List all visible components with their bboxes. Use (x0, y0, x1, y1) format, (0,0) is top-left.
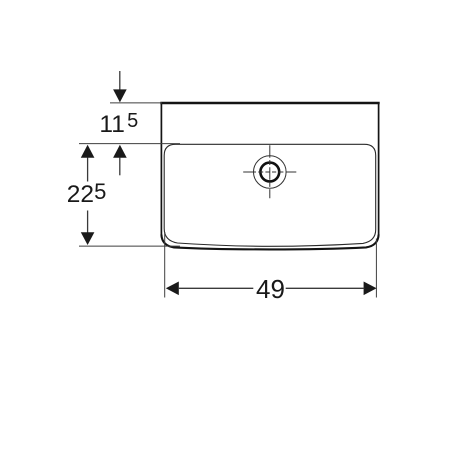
dim 49: right arrowhead (364, 282, 377, 296)
dim 22.5: value text 22 (67, 183, 94, 208)
dim 22.5: up arrowhead (81, 145, 95, 158)
inner basin outline (164, 144, 376, 246)
dim 49: value text 49 (256, 276, 285, 302)
dim 49: left extension line (164, 232, 166, 298)
dim 49: dimension line right segment (286, 287, 365, 289)
tap hole inner circle (260, 163, 279, 182)
washbasin outer outline: left edge (160, 103, 162, 237)
tap hole centerline horizontal (243, 171, 296, 173)
dim 22.5: lower extension line (79, 245, 180, 247)
dim 49: right extension line (375, 239, 377, 298)
dim 22.5: upper extension line (79, 143, 180, 145)
dim 11.5: lower up arrowhead (113, 145, 127, 158)
tap hole centerline vertical (269, 145, 271, 198)
tap hole outer circle (253, 156, 286, 189)
dim 11.5: lower arrow stem (119, 158, 121, 176)
dim 11.5: extension line at sink rear edge (110, 102, 162, 104)
dim 11.5: down arrowhead (113, 89, 127, 102)
dim 22.5: down arrowhead (81, 232, 95, 245)
washbasin outer outline: right edge (378, 103, 380, 237)
dim 49: dimension line left segment (178, 287, 253, 289)
washbasin outer outline: front (bottom) edge (161, 235, 378, 250)
dim 22.5: dimension line lower segment (87, 211, 89, 234)
dim 22.5: dimension line upper segment (87, 158, 89, 182)
dim 22.5: superscript 5 (94, 181, 106, 203)
washbasin outer outline: top edge (160, 102, 379, 105)
dim 11.5: value text 11 (99, 113, 124, 138)
dim 11.5: upper arrow stem (119, 71, 121, 90)
dim 11.5: superscript 5 (127, 111, 138, 131)
dim 49: left arrowhead (166, 282, 179, 296)
